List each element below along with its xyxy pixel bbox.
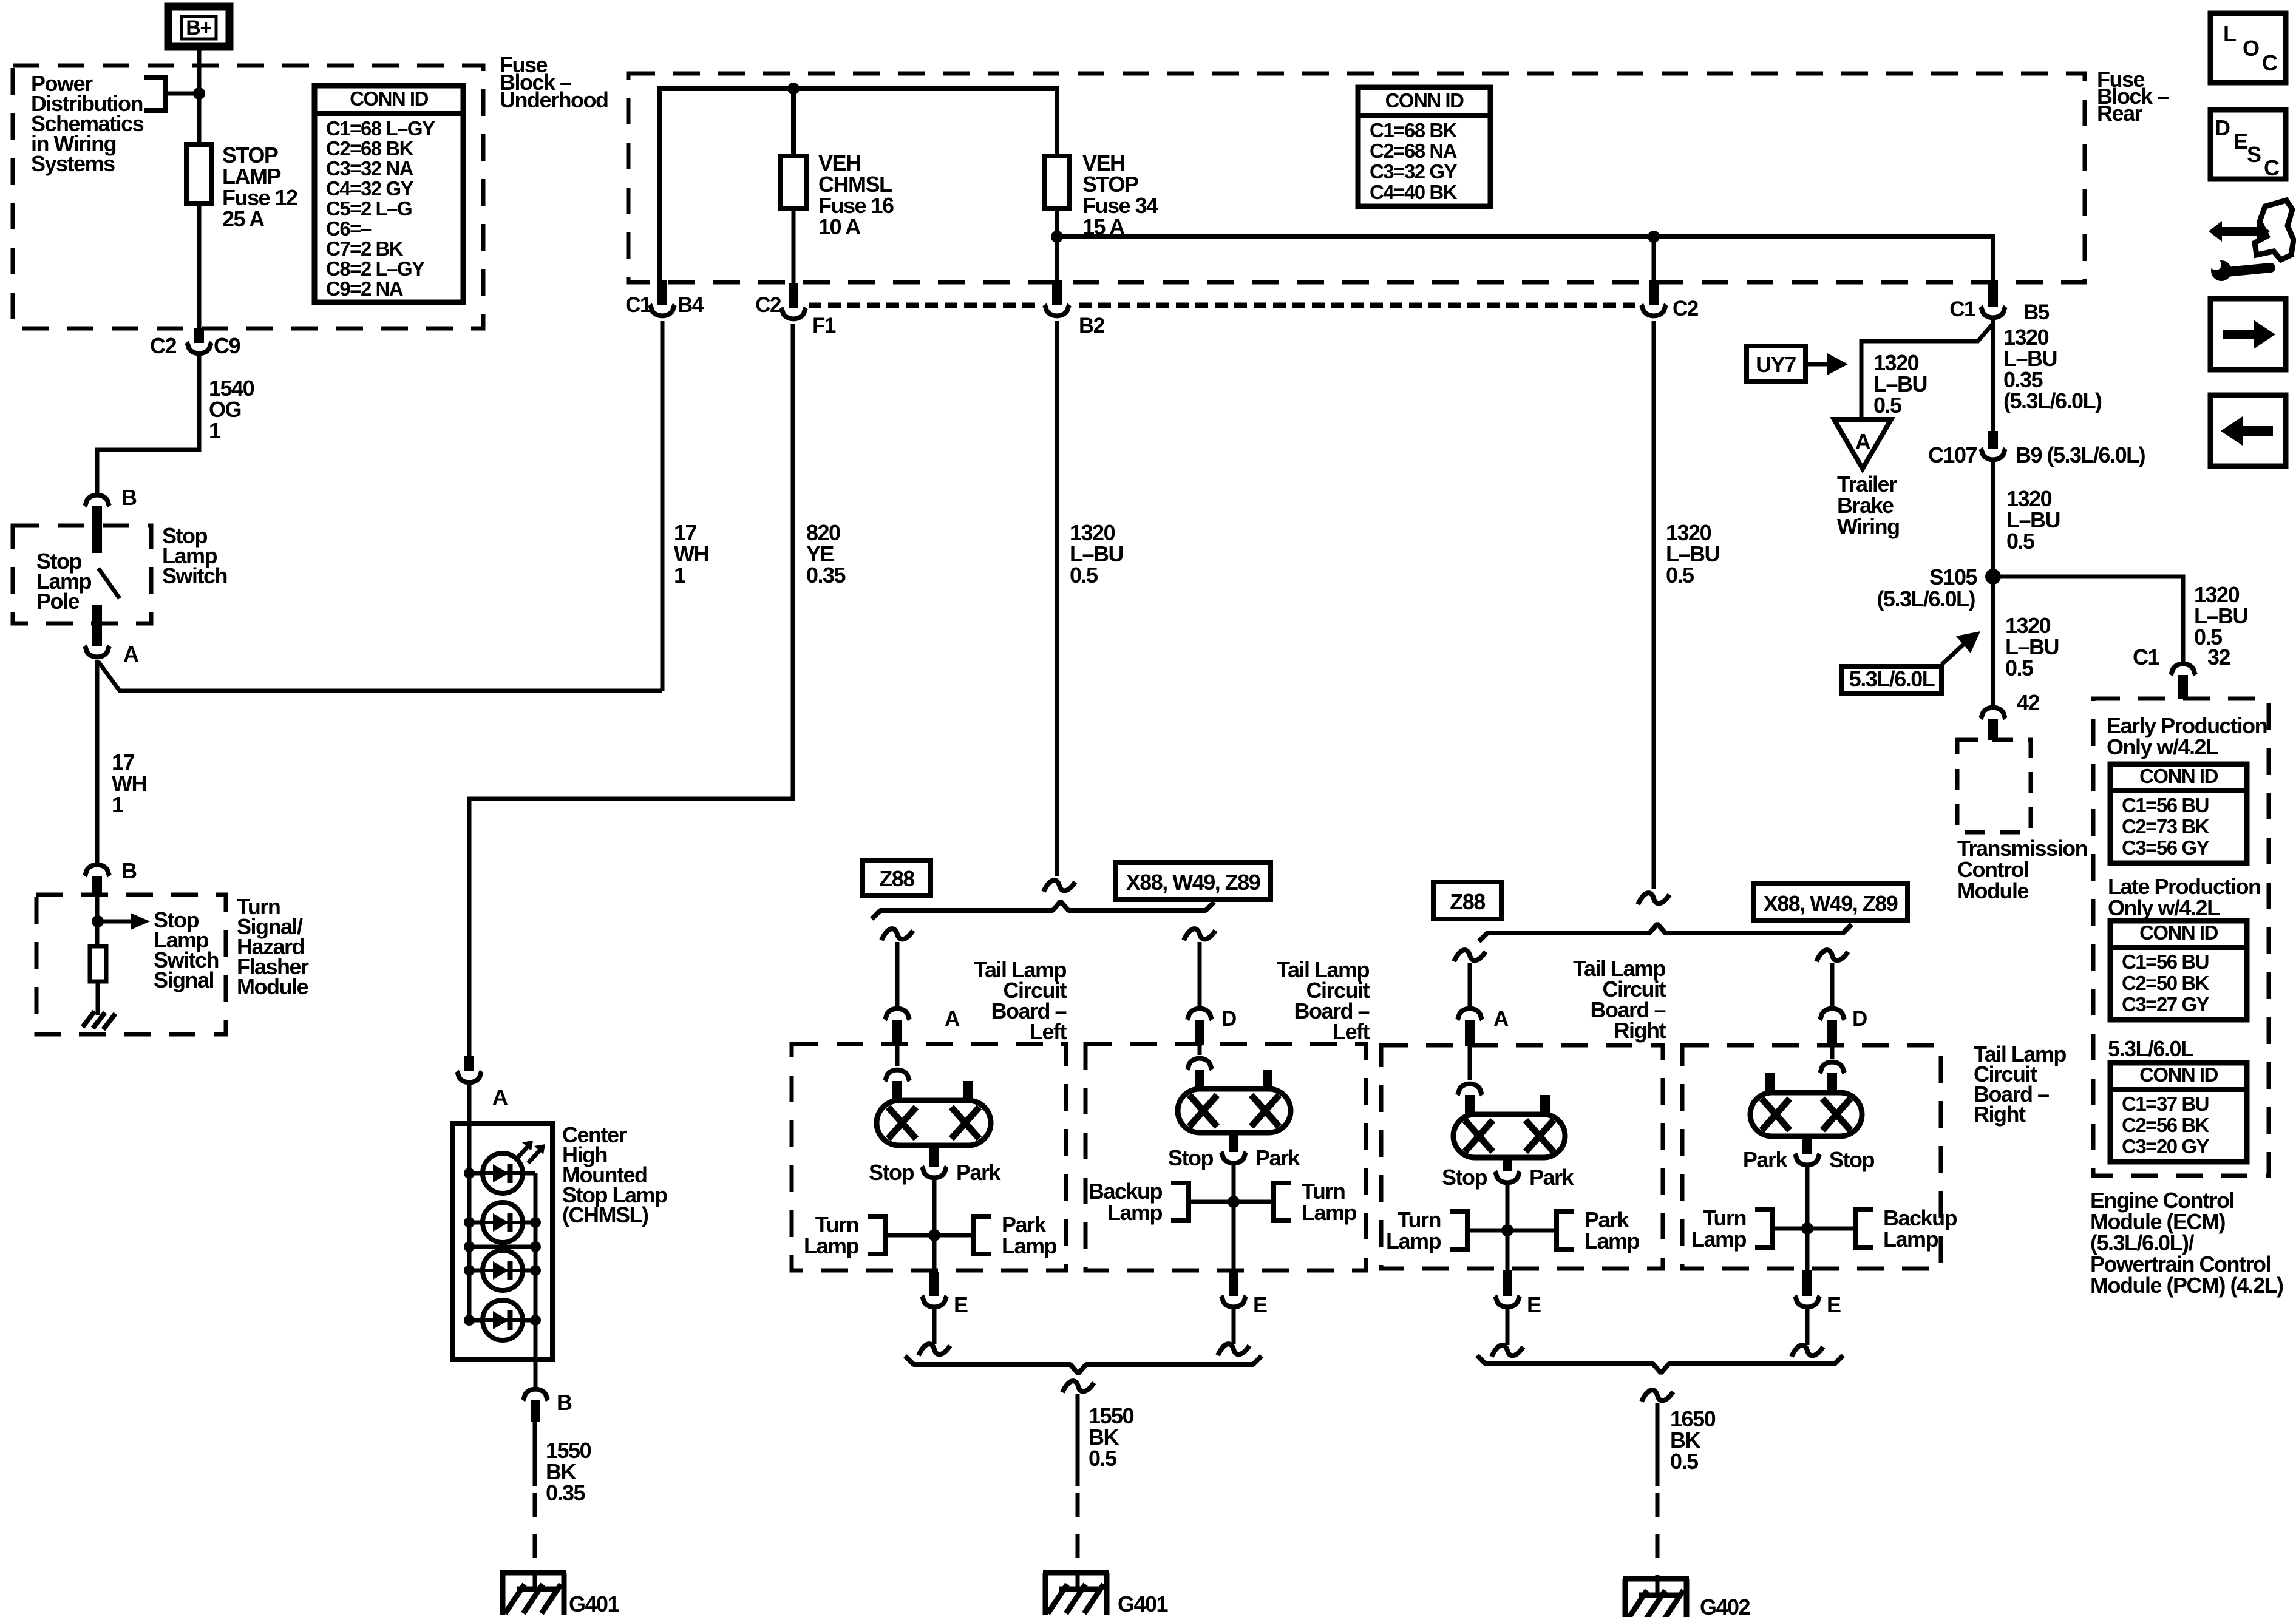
svg-text:B: B (121, 485, 137, 510)
wire S105 to C1/32 connector (1993, 577, 2183, 664)
svg-text:E: E (1827, 1292, 1841, 1317)
junction dot on B+ feed (193, 87, 205, 100)
svg-text:Park: Park (1743, 1147, 1788, 1172)
wire to splice board 4 (1805, 1165, 1810, 1270)
dual filament bulb board 2 (1178, 1089, 1291, 1133)
light emission arrows on CHMSL (517, 1141, 545, 1163)
circuit tap bracket left board 1 (868, 1216, 885, 1254)
stop/park connector board 3 (1442, 1156, 1575, 1190)
svg-text:CONN ID: CONN ID (2139, 765, 2218, 787)
rear fuse block bus wire (660, 89, 1057, 280)
svg-text:Signal: Signal (154, 968, 214, 992)
svg-text:C3=56 GY: C3=56 GY (2122, 836, 2209, 859)
nav button DESC (2210, 110, 2286, 180)
symptoms icon (car with wrench) (2209, 200, 2294, 281)
switch contact bottom (92, 605, 102, 646)
svg-text:G402: G402 (1700, 1595, 1750, 1617)
svg-text:B: B (121, 858, 137, 883)
svg-text:C2=50 BK: C2=50 BK (2122, 972, 2210, 994)
wire fuse 16 to connector F1 (792, 209, 796, 283)
wire 1540 OG 1 from C9 to stop lamp switch (97, 356, 199, 495)
svg-text:S: S (2247, 142, 2261, 167)
svg-text:CONN ID: CONN ID (1385, 89, 1464, 112)
CHMSL LED 1 (483, 1153, 523, 1193)
stop/park connector board 2 (1168, 1131, 1301, 1170)
option box Z88 right (1433, 882, 1501, 919)
wire 1650 BK 0.5 right (1656, 1403, 1660, 1486)
svg-text:5.3L/6.0L: 5.3L/6.0L (2108, 1036, 2193, 1061)
svg-text:G401: G401 (569, 1592, 620, 1616)
svg-text:Lamp: Lamp (804, 1233, 859, 1258)
svg-text:C1=37 BU: C1=37 BU (2122, 1093, 2209, 1115)
svg-text:25 A: 25 A (222, 206, 265, 231)
svg-text:C2=68 NA: C2=68 NA (1370, 140, 1457, 162)
svg-text:Lamp: Lamp (1386, 1229, 1441, 1253)
svg-text:Stop: Stop (1442, 1165, 1487, 1190)
svg-text:Park: Park (1529, 1165, 1575, 1190)
svg-text:O: O (2243, 36, 2259, 61)
svg-text:B4: B4 (678, 293, 704, 317)
stop/park connector board 4 (1743, 1135, 1875, 1172)
break symbol branch D left (1184, 929, 1215, 940)
center high mounted stop lamp box (453, 1124, 552, 1360)
tap wire down to rear connector C2 (1652, 237, 1656, 280)
junction dot below fuse 34 (1051, 231, 1063, 243)
svg-text:C9=2 NA: C9=2 NA (326, 277, 403, 300)
fuse VEH STOP Fuse 34 15A (1044, 156, 1070, 209)
svg-text:C4=32 GY: C4=32 GY (326, 177, 413, 200)
break symbol above left ground wire (1062, 1381, 1094, 1392)
wire: B+ to STOP LAMP fuse (197, 47, 202, 144)
ground G401 (CHMSL) (500, 1573, 620, 1616)
dual filament bulb board 1 (877, 1100, 991, 1145)
option code UY7 callout box (1747, 346, 1805, 382)
svg-text:B9 (5.3L/6.0L): B9 (5.3L/6.0L) (2016, 442, 2145, 467)
svg-text:Lamp: Lamp (1691, 1227, 1747, 1252)
internal splice cross board 2 (1189, 1196, 1274, 1208)
split brace right pair (1479, 924, 1852, 941)
svg-text:Wiring: Wiring (1837, 514, 1900, 539)
svg-text:Lamp: Lamp (1883, 1227, 1938, 1252)
wire 1320 L-BU 0.5 from rear C2 down (1652, 321, 1656, 889)
fuse VEH CHMSL Fuse 16 10A (781, 156, 806, 209)
CONN ID table 5.3L/6.0L (2110, 1063, 2247, 1162)
svg-text:C1=68 L–GY: C1=68 L–GY (326, 117, 435, 140)
svg-text:C2=68 BK: C2=68 BK (326, 137, 414, 160)
in-board connector board 4 (1820, 1045, 1845, 1094)
svg-text:Park: Park (956, 1160, 1002, 1185)
break symbol on C2 wire (1638, 893, 1669, 904)
break symbol on B2 wire (1044, 880, 1075, 892)
svg-text:Module: Module (237, 974, 308, 999)
svg-text:10 A: 10 A (818, 214, 861, 239)
connector A at CHMSL (457, 1056, 509, 1110)
svg-text:E: E (2233, 129, 2247, 154)
svg-text:Pole: Pole (36, 589, 80, 614)
break symbol branch A right (1454, 950, 1486, 961)
off-page triangle A (trailer brake wiring) (1834, 419, 1891, 469)
wire into flasher internals (95, 896, 100, 946)
wire below E board 1 (932, 1309, 937, 1344)
ECM/PCM dashed box (2093, 699, 2269, 1176)
option box X88 W49 Z89 right (1754, 884, 1907, 921)
svg-text:A: A (945, 1007, 960, 1031)
svg-text:C2: C2 (755, 293, 781, 317)
junction dot flasher (92, 915, 104, 927)
svg-text:B2: B2 (1079, 314, 1105, 337)
bus wire from fuse 34 to B5 drop (1057, 237, 1993, 280)
break symbol below E board 1 (919, 1344, 950, 1355)
connector E board 4 (1795, 1270, 1841, 1317)
svg-text:Only w/4.2L: Only w/4.2L (2107, 734, 2218, 759)
connector B2 (1045, 280, 1105, 337)
svg-text:C3=27 GY: C3=27 GY (2122, 993, 2209, 1015)
branch wire to D right (1830, 963, 1835, 1008)
connector E board 1 (922, 1272, 968, 1317)
svg-text:CONN ID: CONN ID (2139, 921, 2218, 944)
wire S105 down to TCM connector 42 (1991, 577, 1995, 707)
internal splice cross board 1 (885, 1229, 974, 1241)
svg-text:F1: F1 (812, 314, 836, 337)
in-board connector board 1 (885, 1044, 910, 1102)
in-board connector board 3 (1458, 1045, 1483, 1116)
svg-text:E: E (1527, 1292, 1541, 1317)
bulb pin (unused filament) board 4 (1765, 1073, 1775, 1094)
svg-text:C4=40 BK: C4=40 BK (1370, 181, 1458, 203)
tail lamp board 3 dashed box (1381, 1045, 1663, 1269)
CHMSL LED 4 (483, 1300, 523, 1340)
svg-text:5.3L/6.0L: 5.3L/6.0L (1849, 666, 1935, 691)
svg-text:C1=68 BK: C1=68 BK (1370, 119, 1458, 141)
arrow from UY7 to wire (1805, 353, 1848, 375)
svg-text:CONN ID: CONN ID (350, 87, 429, 110)
svg-text:Lamp: Lamp (1107, 1200, 1163, 1225)
merge brace left pair (905, 1356, 1262, 1374)
engine option callout box 5.3L/6.0L (1842, 666, 1941, 693)
svg-text:Lamp: Lamp (1584, 1229, 1640, 1253)
svg-text:B: B (557, 1390, 572, 1415)
svg-text:C2=56 BK: C2=56 BK (2122, 1114, 2210, 1136)
svg-text:Rear: Rear (2097, 101, 2143, 126)
break symbol below E board 4 (1792, 1345, 1823, 1357)
connector C1/32 at ECM (2133, 645, 2230, 699)
wire into CHMSL (467, 1085, 472, 1124)
connector B at CHMSL (523, 1360, 572, 1422)
svg-text:0.35: 0.35 (546, 1480, 586, 1505)
svg-text:Systems: Systems (31, 151, 115, 176)
splice S105 (1877, 564, 2001, 611)
circuit tap bracket left board 2 (1171, 1183, 1189, 1221)
stop/park connector board 1 (869, 1144, 1002, 1185)
svg-text:B+: B+ (186, 16, 211, 39)
svg-text:C1: C1 (625, 293, 651, 317)
internal splice cross board 4 (1773, 1222, 1855, 1235)
wire resistor to ground (96, 981, 100, 1015)
svg-text:Left: Left (1030, 1019, 1067, 1044)
dual filament bulb board 3 (1453, 1114, 1565, 1158)
dashed ground wire left (1076, 1493, 1080, 1576)
CONN ID table rear fuse block (1358, 87, 1490, 206)
svg-text:UY7: UY7 (1756, 352, 1796, 377)
connector D board 4 (1820, 1007, 1867, 1046)
connector E board 3 (1495, 1270, 1541, 1317)
break symbol branch A left (881, 929, 913, 940)
dual filament bulb board 4 (1750, 1093, 1862, 1136)
connector C2/C9 at underhood fuse block (150, 328, 240, 358)
connector C2 rear (1642, 280, 1699, 320)
wire 17 WH 1 down to flasher module (95, 660, 100, 864)
switch blade (open) (98, 568, 120, 598)
svg-text:Right: Right (1974, 1102, 2026, 1127)
wire fuse 34 to connector B2 (1055, 209, 1059, 280)
ground G401 (tail lamps left) (1043, 1573, 1169, 1616)
CHMSL junction dots (464, 1168, 541, 1326)
wire: fuse 12 to connector C2/C9 (197, 203, 202, 328)
wire 820 YE 0.35 from F1 to CHMSL (469, 324, 793, 1056)
connector C107/B9 (1928, 431, 2145, 467)
svg-text:Right: Right (1614, 1018, 1666, 1043)
wire below E board 3 (1506, 1309, 1510, 1345)
wire to splice board 3 (1506, 1183, 1510, 1270)
svg-text:Stop: Stop (869, 1160, 914, 1185)
svg-text:0.5: 0.5 (1873, 393, 1902, 418)
bulb pin (unused filament) board 1 (963, 1081, 973, 1102)
merge brace right pair (1477, 1355, 1843, 1373)
svg-text:0.5: 0.5 (2005, 656, 2034, 680)
wire 1550 BK 0.35 to ground (533, 1422, 537, 1486)
wire to splice board 2 (1232, 1164, 1236, 1272)
svg-text:CONN ID: CONN ID (2139, 1063, 2218, 1086)
svg-text:C1=56 BU: C1=56 BU (2122, 794, 2209, 816)
svg-text:B5: B5 (2023, 300, 2050, 324)
connector face dotted line (809, 303, 1638, 308)
wire from B5 with trailer-brake branch (1861, 320, 1993, 432)
svg-text:C3=20 GY: C3=20 GY (2122, 1135, 2209, 1158)
svg-text:(CHMSL): (CHMSL) (562, 1202, 648, 1227)
tail lamp board 4 dashed box (1682, 1045, 1941, 1269)
svg-text:C3=32 NA: C3=32 NA (326, 157, 413, 180)
transmission control module dashed box (1957, 740, 2031, 832)
connector B at stop lamp switch (85, 485, 137, 526)
svg-text:0.5: 0.5 (1070, 563, 1098, 588)
option box X88 W49 Z89 left (1115, 863, 1271, 900)
break symbol below E board 2 (1218, 1344, 1249, 1355)
connector C2/F1 (755, 283, 836, 337)
svg-text:C5=2 L–G: C5=2 L–G (326, 197, 412, 220)
svg-text:0.5: 0.5 (2006, 529, 2035, 554)
connector A board 3 (1458, 1007, 1509, 1046)
branch wire to A right (1468, 963, 1472, 1008)
battery feed B+ symbol (168, 7, 229, 47)
svg-text:1: 1 (674, 563, 686, 588)
CONN ID table late production (2110, 921, 2247, 1020)
svg-text:0.35: 0.35 (806, 563, 846, 588)
svg-text:C1=56 BU: C1=56 BU (2122, 951, 2209, 973)
svg-text:C3=32 GY: C3=32 GY (1370, 160, 1457, 183)
in-board connector board 2 (1187, 1044, 1212, 1090)
svg-text:Underhood: Underhood (500, 87, 608, 112)
CHMSL internal wiring (469, 1124, 535, 1360)
wire 1550 BK 0.5 left (1076, 1394, 1080, 1486)
svg-text:C6=–: C6=– (326, 217, 372, 240)
svg-text:Module: Module (1957, 878, 2028, 903)
connector 42 at TCM (1981, 690, 2040, 740)
svg-text:C2=73 BK: C2=73 BK (2122, 815, 2210, 838)
turn signal hazard flasher module dashed box (36, 895, 226, 1034)
svg-text:C8=2 L–GY: C8=2 L–GY (326, 257, 425, 280)
circuit tap bracket left board 4 (1755, 1210, 1773, 1247)
svg-text:X88, W49, Z89: X88, W49, Z89 (1126, 870, 1260, 895)
CHMSL LED 2 (483, 1202, 523, 1242)
CONN ID table early production (2110, 764, 2247, 863)
connector C1/B5 (1949, 280, 2050, 324)
circuit tap bracket right board 4 (1855, 1210, 1873, 1247)
circuit tap bracket right board 3 (1557, 1212, 1574, 1249)
svg-text:C107: C107 (1928, 442, 1977, 467)
svg-text:D: D (1221, 1007, 1236, 1031)
circuit tap bracket right board 1 (974, 1216, 991, 1254)
break symbol branch D right (1816, 950, 1848, 961)
chassis ground in flasher module (83, 1011, 115, 1029)
svg-text:S105: S105 (1929, 564, 1978, 589)
svg-text:X88, W49, Z89: X88, W49, Z89 (1764, 891, 1898, 916)
split brace left pair (872, 901, 1214, 919)
fuse block underhood dashed box (13, 66, 483, 328)
connector A board 1 (885, 1007, 960, 1045)
svg-text:Lamp: Lamp (1302, 1200, 1357, 1225)
resistor in flasher module (90, 946, 106, 981)
svg-text:Module (PCM) (4.2L): Module (PCM) (4.2L) (2090, 1273, 2283, 1298)
break symbol above right ground wire (1642, 1390, 1673, 1402)
svg-text:C: C (2264, 155, 2280, 180)
nav button next (2210, 299, 2286, 370)
svg-text:1: 1 (209, 418, 221, 443)
svg-text:32: 32 (2207, 645, 2230, 670)
circuit tap bracket right board 2 (1274, 1183, 1291, 1221)
svg-text:Stop: Stop (1829, 1147, 1874, 1172)
stop lamp switch dashed box (13, 526, 151, 623)
svg-text:C: C (2262, 50, 2278, 75)
tail lamp board 1 dashed box (792, 1044, 1066, 1270)
branch wire to D left (1198, 942, 1202, 1006)
bulb pin (unused filament) board 2 (1263, 1070, 1272, 1091)
switch contact top (92, 526, 102, 553)
svg-text:A: A (1855, 429, 1871, 454)
break symbol below E board 3 (1492, 1345, 1523, 1357)
svg-text:Z88: Z88 (879, 866, 914, 891)
svg-text:1: 1 (112, 792, 124, 817)
bulb pin (unused filament) board 3 (1540, 1095, 1550, 1116)
svg-text:C1: C1 (1949, 297, 1975, 321)
CHMSL LED 3 (483, 1250, 523, 1290)
svg-text:C2: C2 (1673, 297, 1699, 320)
svg-text:C2: C2 (150, 333, 176, 358)
svg-text:Left: Left (1333, 1019, 1370, 1044)
svg-text:A: A (492, 1085, 508, 1110)
svg-text:D: D (2215, 115, 2230, 140)
signal arrow inside flasher (98, 913, 150, 930)
fuse block rear dashed box (628, 73, 2085, 282)
connector C1/B4 (625, 280, 704, 317)
svg-text:C1: C1 (2133, 645, 2159, 670)
CONN ID table underhood (314, 86, 463, 302)
svg-text:L: L (2223, 21, 2236, 46)
junction dot on bus at fuse 16 (787, 83, 800, 95)
junction dot above connector C2 rear (1648, 231, 1660, 243)
svg-text:Only w/4.2L: Only w/4.2L (2108, 895, 2220, 920)
svg-text:0.5: 0.5 (1089, 1446, 1117, 1471)
connector E board 2 (1221, 1272, 1268, 1317)
connector D board 2 (1187, 1007, 1237, 1045)
svg-text:(5.3L/6.0L): (5.3L/6.0L) (1877, 586, 1975, 611)
dashed ground wire right (1656, 1493, 1660, 1582)
wire 1320 L-BU 0.5 from B2 down (1055, 321, 1059, 876)
internal splice cross board 3 (1467, 1224, 1557, 1236)
svg-text:Switch: Switch (162, 563, 227, 588)
wire below E board 4 (1805, 1309, 1810, 1345)
svg-text:C7=2 BK: C7=2 BK (326, 237, 404, 260)
svg-text:G401: G401 (1118, 1592, 1169, 1616)
svg-text:E: E (1253, 1292, 1267, 1317)
reference bracket to power distribution note (144, 77, 199, 110)
fuse STOP LAMP Fuse 12 25A (186, 144, 212, 203)
svg-text:A: A (1493, 1007, 1509, 1031)
svg-text:42: 42 (2017, 690, 2040, 715)
nav button LOC (2210, 13, 2286, 83)
svg-text:Park: Park (1255, 1145, 1301, 1170)
svg-text:D: D (1852, 1007, 1867, 1031)
branch wire to A left (895, 942, 900, 1006)
tail lamp board 2 dashed box (1085, 1044, 1366, 1270)
arrow from 5.3L/6.0L box to wire (1941, 631, 1980, 665)
svg-text:0.5: 0.5 (1670, 1449, 1699, 1474)
svg-text:E: E (954, 1292, 968, 1317)
svg-text:C9: C9 (214, 333, 240, 358)
option box Z88 left (863, 860, 931, 895)
svg-text:Lamp: Lamp (1002, 1233, 1057, 1258)
wire to splice board 1 (932, 1178, 937, 1272)
svg-text:0.5: 0.5 (1666, 563, 1694, 588)
svg-text:Z88: Z88 (1450, 889, 1485, 914)
ground G402 (1623, 1579, 1750, 1617)
svg-text:(5.3L/6.0L): (5.3L/6.0L) (2003, 388, 2102, 413)
dashed ground wire CHMSL (533, 1493, 537, 1576)
connector A at stop lamp switch (85, 642, 140, 666)
nav button previous (2210, 395, 2286, 466)
wire C107 to S105 (1991, 462, 1995, 577)
svg-text:Stop: Stop (1168, 1145, 1213, 1170)
wire below E board 2 (1232, 1309, 1236, 1344)
svg-text:A: A (123, 642, 139, 666)
wire from switch A to underhood B4 (17 WH 1) (98, 662, 662, 691)
connector B at flasher module (85, 858, 137, 896)
circuit tap bracket left board 3 (1450, 1212, 1467, 1249)
wire 17 WH 1 from B4 down (661, 321, 665, 691)
